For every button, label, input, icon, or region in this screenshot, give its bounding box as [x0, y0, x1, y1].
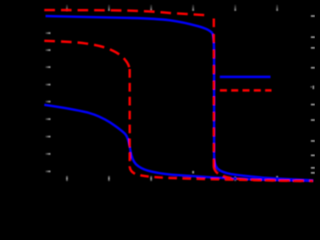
curve red2 dashed cliff vertical at x=129.7	[128, 69, 130, 168]
curve red2 dashed bottom floor	[130, 168, 313, 182]
y-axis right tick 7	[311, 119, 315, 121]
y-axis right tick 5	[311, 86, 312, 87]
y-axis right tick 10	[311, 167, 315, 169]
y-axis left tick 3	[45, 66, 50, 68]
curve red1 dashed flat segment (upper red plateau)	[44, 10, 207, 15]
y-axis left tick 2	[45, 49, 50, 51]
y-axis left tick 5	[45, 101, 50, 103]
curve red1 dashed cliff vertical at x=213.7	[213, 19, 215, 167]
curve red1 dashed bottom bend and floor	[214, 167, 307, 182]
legend blue solid sample	[220, 76, 271, 79]
curve blue2 solid sigmoid (lower blue), left plateau y=105 dropping near x=130 to floor	[44, 105, 313, 181]
x-axis bottom tick 4	[192, 171, 194, 174]
x-axis top tick 1	[66, 5, 68, 11]
x-axis bottom tick 3	[150, 176, 152, 181]
x-axis bottom tick 1	[66, 176, 68, 181]
x-axis top tick 5	[234, 5, 236, 11]
y-axis right tick 3	[311, 47, 315, 49]
x-axis top tick 3	[150, 5, 152, 11]
y-axis right tick 6	[311, 104, 315, 106]
legend red dashed sample	[220, 89, 272, 92]
x-axis bottom tick 2	[108, 176, 110, 181]
x-axis bottom tick 6	[276, 176, 278, 179]
y-axis right tick 4	[311, 67, 315, 69]
y-axis left tick 1	[45, 32, 50, 34]
y-axis right tick 8	[311, 140, 315, 142]
x-axis bottom tick 5	[234, 176, 236, 181]
y-axis right tick 2	[311, 36, 315, 38]
y-axis right tick 11	[311, 172, 315, 174]
x-axis top tick 4	[192, 5, 194, 11]
y-axis left tick 4	[45, 84, 50, 86]
y-axis left tick 8	[45, 153, 50, 155]
x-axis top tick 2	[108, 5, 110, 11]
y-axis left tick 6	[45, 118, 50, 120]
y-axis right tick 9	[311, 155, 315, 157]
y-axis left tick 7	[45, 136, 50, 138]
curve blue1 solid (upper blue), slow descent then cliff at x=214	[46, 16, 314, 180]
x-axis top tick 6	[276, 5, 278, 11]
curve red2 dashed left plateau and knee	[44, 41, 129, 68]
y-axis right tick 1	[311, 15, 315, 17]
y-axis left tick 9	[45, 171, 50, 173]
